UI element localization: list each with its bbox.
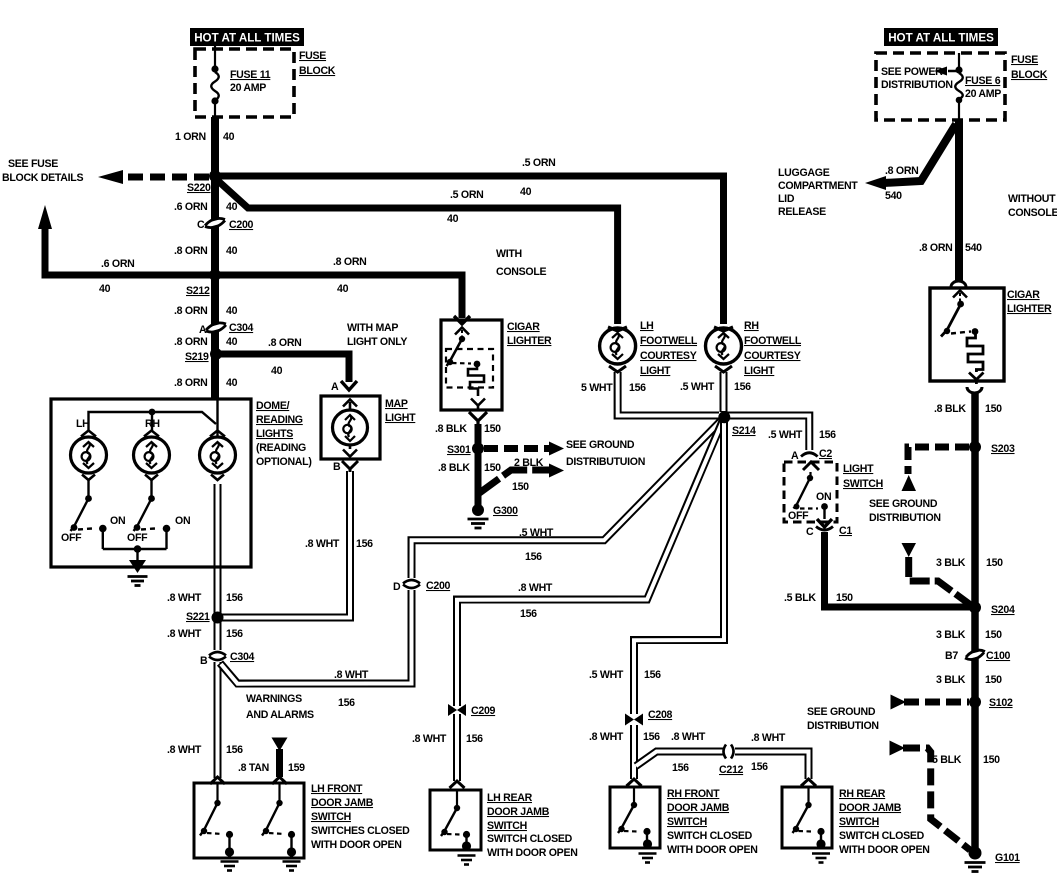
svg-text:ON: ON	[816, 491, 831, 503]
ground LH rear door jamb switch	[462, 841, 471, 850]
svg-text:C304: C304	[230, 651, 255, 663]
svg-text:150: 150	[985, 629, 1002, 641]
svg-text:156: 156	[644, 669, 661, 681]
svg-text:156: 156	[672, 762, 689, 774]
svg-text:CONSOLE: CONSOLE	[1008, 207, 1057, 219]
svg-text:20 AMP: 20 AMP	[230, 82, 266, 94]
wire .5 WHT 156 RH footwell light to S214	[720, 372, 728, 412]
svg-text:LIGHTS: LIGHTS	[256, 428, 293, 440]
svg-text:.8 ORN: .8 ORN	[919, 242, 953, 254]
connector C200 pin C	[204, 220, 226, 226]
RH rear door jamb switch	[793, 787, 822, 841]
svg-text:.8 WHT: .8 WHT	[751, 732, 786, 744]
wire .8 ORN fuse 6 to luggage release arrow	[884, 124, 956, 183]
svg-text:.8 BLK: .8 BLK	[435, 423, 467, 435]
wire .8 ORN 40 S219 to map light A	[216, 354, 349, 382]
cigar lighter with console box	[441, 320, 502, 410]
svg-text:40: 40	[99, 283, 111, 295]
wire 5 WHT 156 LH footwell light to S214	[618, 372, 719, 416]
svg-text:DOOR JAMB: DOOR JAMB	[667, 802, 730, 814]
terminal map light A	[341, 381, 357, 390]
wire .5 WHT 156 S214 to C208	[634, 418, 724, 715]
svg-text:40: 40	[223, 131, 235, 143]
connector C209	[448, 704, 466, 716]
arrow see ground distribution from S301	[549, 442, 564, 456]
svg-text:FUSE: FUSE	[299, 50, 326, 62]
wire .8 WHT 156 C304 B to warnings and alarms to C200 D	[220, 590, 412, 684]
terminal light switch C	[817, 519, 832, 527]
wire .8 WHT 156 C208 branch to C212	[636, 752, 723, 767]
svg-text:HOT AT ALL TIMES: HOT AT ALL TIMES	[888, 32, 994, 45]
svg-text:1 ORN: 1 ORN	[175, 131, 206, 143]
svg-text:BLOCK: BLOCK	[1011, 69, 1048, 81]
svg-text:WITHOUT: WITHOUT	[1008, 193, 1056, 205]
svg-text:MAP: MAP	[385, 398, 408, 410]
splice S221	[212, 612, 224, 624]
svg-text:40: 40	[226, 336, 238, 348]
svg-text:.5 WHT: .5 WHT	[519, 527, 554, 539]
svg-text:3 BLK: 3 BLK	[936, 629, 966, 641]
svg-text:.6 ORN: .6 ORN	[174, 201, 208, 213]
svg-text:.8 ORN: .8 ORN	[268, 337, 302, 349]
svg-text:LH: LH	[640, 320, 654, 332]
svg-text:.8 WHT: .8 WHT	[167, 744, 202, 756]
terminal light switch A	[803, 462, 819, 470]
svg-text:COURTESY: COURTESY	[744, 350, 801, 362]
wire .8 WHT 156 C304 B to LH front door jamb switch	[214, 662, 222, 778]
splice S204	[969, 602, 981, 614]
svg-text:C304: C304	[229, 322, 254, 334]
svg-text:.8 WHT: .8 WHT	[518, 582, 553, 594]
svg-text:LID: LID	[778, 193, 795, 205]
svg-text:OFF: OFF	[61, 532, 82, 544]
splice S203	[969, 441, 981, 453]
svg-text:3 BLK: 3 BLK	[936, 674, 966, 686]
svg-text:FUSE: FUSE	[1011, 54, 1038, 66]
dome reading lights box	[51, 399, 251, 567]
ground RH front door jamb switch	[643, 839, 652, 848]
connector C212	[724, 745, 734, 759]
connector C100 pin B7	[965, 653, 985, 658]
LH front door jamb switch box	[194, 783, 304, 858]
wire .5 WHT 156 C200 D to S214	[412, 418, 725, 579]
wire .8 ORN 540 fuse 6 to cigar lighter without console	[955, 120, 963, 284]
svg-text:SWITCH: SWITCH	[839, 816, 879, 828]
svg-text:WITH DOOR OPEN: WITH DOOR OPEN	[311, 839, 402, 851]
wire dashed S203 to see ground distribution up arrow	[908, 447, 969, 474]
terminal cigar lighter without console top	[951, 281, 966, 287]
ground G101	[969, 847, 982, 860]
ground G300	[472, 504, 484, 516]
svg-text:CIGAR: CIGAR	[1007, 289, 1040, 301]
svg-text:150: 150	[484, 462, 501, 474]
wire dashed see ground arrow to S102	[904, 699, 969, 706]
fuse F6 symbol	[948, 53, 963, 120]
svg-text:.5 WHT: .5 WHT	[768, 429, 803, 441]
svg-text:156: 156	[525, 551, 542, 563]
svg-text:S102: S102	[989, 697, 1013, 709]
svg-text:SEE POWER: SEE POWER	[881, 66, 943, 78]
svg-text:DOOR JAMB: DOOR JAMB	[487, 806, 550, 818]
svg-text:S221: S221	[186, 611, 210, 623]
svg-text:C: C	[806, 526, 814, 538]
splice S301	[472, 443, 484, 455]
svg-text:SWITCH: SWITCH	[667, 816, 707, 828]
svg-text:540: 540	[965, 242, 982, 254]
svg-text:156: 156	[520, 608, 537, 620]
terminal RH front door jamb switch	[627, 779, 642, 786]
splice S214	[718, 411, 730, 423]
wire 1 ORN 40 from fuse 11 to S220	[211, 117, 219, 176]
svg-text:.8 ORN: .8 ORN	[174, 245, 208, 257]
svg-text:C2: C2	[819, 448, 832, 460]
svg-text:2 BLK: 2 BLK	[514, 457, 544, 469]
svg-text:LH: LH	[76, 418, 90, 430]
svg-text:DOOR JAMB: DOOR JAMB	[839, 802, 902, 814]
wire .5 ORN 40 S220 to RH footwell light	[215, 176, 724, 324]
terminal RH footwell bottom	[715, 366, 732, 372]
svg-text:C100: C100	[986, 650, 1011, 662]
connector C304 pin A	[205, 325, 227, 331]
svg-text:5 WHT: 5 WHT	[581, 382, 613, 394]
svg-text:S220: S220	[187, 182, 211, 194]
ground RH rear door jamb switch	[816, 839, 825, 848]
splice S220	[209, 170, 221, 182]
wire 3 BLK 150 S203 to S204 to C100 to S102	[971, 447, 979, 702]
svg-text:C: C	[197, 219, 205, 231]
svg-text:40: 40	[271, 365, 283, 377]
bulb dome reading optional	[200, 431, 236, 481]
wire .8 ORN 40 S212 to cigar lighter with console	[215, 275, 462, 318]
svg-text:CIGAR: CIGAR	[507, 321, 540, 333]
terminal cigar lighter top	[454, 316, 470, 324]
svg-text:.8 WHT: .8 WHT	[412, 733, 447, 745]
svg-text:156: 156	[734, 381, 751, 393]
svg-text:WITH DOOR OPEN: WITH DOOR OPEN	[839, 844, 930, 856]
svg-text:DISTRIBUTION: DISTRIBUTION	[881, 79, 953, 91]
terminal RH rear door jamb switch	[801, 779, 816, 786]
wire .8 ORN S220 to C200 to S212	[211, 176, 219, 275]
svg-text:3 BLK: 3 BLK	[936, 557, 966, 569]
arrow see power distribution	[934, 67, 947, 76]
terminal LH front door jamb switch pin 2	[272, 777, 287, 784]
svg-text:C212: C212	[719, 764, 744, 776]
svg-text:OFF: OFF	[127, 532, 148, 544]
svg-text:540: 540	[885, 190, 902, 202]
svg-text:156: 156	[226, 744, 243, 756]
svg-text:G300: G300	[493, 505, 518, 517]
svg-text:.8 WHT: .8 WHT	[589, 731, 624, 743]
arrow down .8 TAN off-page	[272, 738, 288, 752]
svg-text:READING: READING	[256, 414, 303, 426]
svg-text:LIGHT: LIGHT	[640, 365, 671, 377]
svg-text:.8 WHT: .8 WHT	[167, 592, 202, 604]
wire .8 WHT 156 map light B to S221	[222, 471, 350, 618]
splice S102	[969, 696, 981, 708]
wire S102 to G101	[971, 702, 979, 851]
svg-text:C209: C209	[471, 705, 496, 717]
wire dashed S301 to see ground distribution arrow	[484, 445, 549, 452]
svg-text:S219: S219	[185, 351, 209, 363]
svg-text:156: 156	[466, 733, 483, 745]
svg-text:OFF: OFF	[788, 510, 809, 522]
svg-text:.5 ORN: .5 ORN	[450, 189, 484, 201]
RH front door jamb switch box	[610, 787, 660, 848]
svg-text:S301: S301	[447, 444, 471, 456]
svg-text:CONSOLE: CONSOLE	[496, 266, 547, 278]
switch LH dome	[71, 480, 103, 549]
wire .8 WHT 156 S214 to C209	[457, 418, 724, 707]
arrow see ground distribution 2 BLK	[549, 464, 564, 478]
svg-text:40: 40	[226, 201, 238, 213]
wire dashed to SEE FUSE BLOCK DETAILS arrow	[121, 174, 209, 181]
wire .8 ORN S212 through C304 A and S219 to dome lights	[211, 275, 219, 399]
svg-text:RH: RH	[145, 418, 160, 430]
ground LH front door jamb switch 2	[287, 847, 296, 856]
svg-text:WARNINGS: WARNINGS	[246, 693, 302, 705]
svg-text:156: 156	[226, 628, 243, 640]
svg-text:.8 ORN: .8 ORN	[174, 377, 208, 389]
LH front door jamb switch 1	[200, 784, 230, 849]
svg-text:BLOCK: BLOCK	[299, 65, 336, 77]
svg-text:.8 ORN: .8 ORN	[333, 256, 367, 268]
ground LH front door jamb switch 1	[225, 847, 234, 856]
terminal LH rear door jamb switch	[450, 781, 465, 788]
svg-text:LIGHT: LIGHT	[385, 412, 416, 424]
svg-text:LH REAR: LH REAR	[487, 792, 533, 804]
map light box	[321, 396, 380, 459]
terminal LH footwell	[608, 327, 627, 331]
svg-text:A: A	[331, 381, 339, 393]
RH front door jamb switch	[618, 787, 647, 841]
svg-text:20 AMP: 20 AMP	[965, 88, 1001, 100]
terminal cigar lighter bottom	[469, 412, 487, 425]
arrow see ground distribution to S102	[891, 695, 907, 710]
bulb LH dome	[71, 431, 107, 481]
svg-text:S204: S204	[991, 604, 1015, 616]
wire 5 BLK 150 see ground arrow to G101	[903, 748, 970, 850]
svg-text:WITH DOOR OPEN: WITH DOOR OPEN	[667, 844, 758, 856]
svg-text:A: A	[791, 450, 799, 462]
svg-text:OPTIONAL): OPTIONAL)	[256, 456, 312, 468]
wire .8 TAN 159 from off-page arrow to LH front door jamb switch	[276, 749, 283, 777]
light switch dashed box	[784, 462, 837, 522]
svg-text:LIGHTER: LIGHTER	[507, 335, 552, 347]
wire .8 WHT 156 C208 to RH front door jamb switch	[630, 725, 638, 779]
svg-text:B: B	[333, 461, 341, 473]
svg-text:.6 ORN: .6 ORN	[101, 258, 135, 270]
connector C304 pin B	[209, 652, 226, 660]
svg-text:LIGHT: LIGHT	[744, 365, 775, 377]
svg-text:.5 ORN: .5 ORN	[522, 157, 556, 169]
LH front door jamb switch 2	[262, 784, 292, 849]
svg-text:LH FRONT: LH FRONT	[311, 783, 363, 795]
svg-text:SWITCHES CLOSED: SWITCHES CLOSED	[311, 825, 410, 837]
hot at all times header left	[190, 28, 304, 46]
ground dome lights	[136, 549, 138, 560]
svg-text:S212: S212	[186, 285, 210, 297]
svg-text:C200: C200	[426, 580, 451, 592]
svg-text:WITH: WITH	[496, 248, 522, 260]
svg-text:DISTRIBUTUION: DISTRIBUTUION	[566, 456, 645, 468]
svg-text:FOOTWELL: FOOTWELL	[744, 335, 802, 347]
svg-text:DISTRIBUTION: DISTRIBUTION	[869, 512, 941, 524]
svg-text:RH: RH	[744, 320, 759, 332]
svg-text:C1: C1	[839, 525, 852, 537]
LH rear door jamb switch box	[430, 790, 481, 850]
arrow see ground distribution 5 BLK	[890, 741, 906, 756]
svg-text:159: 159	[288, 762, 305, 774]
svg-text:DISTRIBUTION: DISTRIBUTION	[807, 720, 879, 732]
dome switch common bus to ground	[103, 548, 167, 550]
svg-text:150: 150	[983, 754, 1000, 766]
wire 2 BLK 150 to see ground distribution arrow 2	[478, 470, 549, 494]
svg-text:40: 40	[226, 305, 238, 317]
svg-text:LIGHTER: LIGHTER	[1007, 303, 1052, 315]
svg-text:COMPARTMENT: COMPARTMENT	[778, 180, 858, 192]
terminal LH footwell bottom	[609, 366, 626, 372]
svg-text:DOME/: DOME/	[256, 400, 290, 412]
svg-text:.5 BLK: .5 BLK	[784, 592, 816, 604]
svg-text:LIGHT ONLY: LIGHT ONLY	[347, 336, 407, 348]
svg-text:C200: C200	[229, 219, 254, 231]
svg-text:SWITCH CLOSED: SWITCH CLOSED	[487, 833, 573, 845]
bulb LH footwell	[600, 328, 636, 364]
svg-text:AND ALARMS: AND ALARMS	[246, 709, 314, 721]
arrow luggage compartment lid release	[865, 176, 886, 190]
svg-text:.5 WHT: .5 WHT	[589, 669, 624, 681]
svg-text:SEE FUSE: SEE FUSE	[8, 158, 58, 170]
dome internal feed bus	[89, 399, 218, 437]
svg-text:SWITCH CLOSED: SWITCH CLOSED	[839, 830, 925, 842]
svg-text:LUGGAGE: LUGGAGE	[778, 167, 830, 179]
terminal LH front door jamb switch pin 1	[210, 777, 225, 784]
wire 3 BLK 150 down arrow to S204	[909, 557, 972, 606]
svg-text:A: A	[199, 324, 207, 336]
svg-text:156: 156	[643, 731, 660, 743]
switch RH dome	[134, 480, 167, 549]
svg-text:B7: B7	[945, 650, 958, 662]
svg-text:G101: G101	[995, 852, 1020, 864]
bulb map light	[333, 400, 368, 457]
svg-text:.8 ORN: .8 ORN	[885, 165, 919, 177]
connector C2 pin A	[801, 453, 818, 457]
connector C1 pin C	[816, 527, 833, 531]
svg-text:.8 WHT: .8 WHT	[671, 731, 706, 743]
svg-text:5 BLK: 5 BLK	[932, 754, 962, 766]
hot at all times header right	[884, 28, 998, 46]
svg-text:150: 150	[986, 557, 1003, 569]
RH rear door jamb switch box	[782, 787, 832, 848]
fuse block left dashed box	[195, 49, 294, 117]
wire .8 WHT 156 C212 to RH rear door jamb switch	[735, 752, 809, 780]
svg-text:.8 WHT: .8 WHT	[305, 538, 340, 550]
svg-text:SWITCH CLOSED: SWITCH CLOSED	[667, 830, 753, 842]
svg-text:150: 150	[836, 592, 853, 604]
svg-text:(READING: (READING	[256, 442, 306, 454]
arrow up from S212 branch	[38, 205, 52, 229]
svg-text:150: 150	[985, 403, 1002, 415]
svg-text:SEE GROUND: SEE GROUND	[807, 706, 876, 718]
svg-text:WITH MAP: WITH MAP	[347, 322, 398, 334]
svg-text:.5 WHT: .5 WHT	[680, 381, 715, 393]
svg-text:.8 ORN: .8 ORN	[174, 336, 208, 348]
bulb RH dome	[134, 431, 170, 481]
connector C208	[625, 714, 643, 726]
svg-text:156: 156	[629, 382, 646, 394]
svg-text:RH REAR: RH REAR	[839, 788, 886, 800]
connector C200 pin D	[403, 580, 420, 588]
svg-text:ON: ON	[110, 515, 125, 527]
arrow up see ground distribution right	[902, 475, 917, 491]
svg-text:SEE GROUND: SEE GROUND	[869, 498, 938, 510]
svg-text:COURTESY: COURTESY	[640, 350, 697, 362]
svg-text:B: B	[200, 655, 208, 667]
svg-text:156: 156	[226, 592, 243, 604]
fuse F11 symbol	[211, 46, 219, 117]
svg-text:.8 ORN: .8 ORN	[174, 305, 208, 317]
svg-text:LIGHT: LIGHT	[843, 463, 874, 475]
terminal RH footwell	[714, 327, 733, 331]
wire .8 BLK 150 cigar lighter to S203	[971, 388, 979, 447]
terminal map light B	[342, 461, 358, 472]
svg-text:FOOTWELL: FOOTWELL	[640, 335, 698, 347]
wire .8 WHT 156 dome lights to S221	[214, 484, 222, 617]
wire .8 BLK 150 S301 to G300	[475, 448, 482, 506]
splice S212	[209, 269, 221, 281]
light switch contacts	[794, 472, 825, 519]
terminal cigar lighter without console bottom	[967, 387, 982, 393]
wire .8 WHT 156 C209 to LH rear door jamb switch	[453, 714, 461, 781]
wire .6 ORN 40 S212 to up arrow	[45, 226, 215, 275]
svg-text:DOOR JAMB: DOOR JAMB	[311, 797, 374, 809]
wire .8 WHT 156 S221 to C304 B	[214, 618, 222, 650]
cigar lighter without console box	[930, 288, 1004, 381]
svg-text:156: 156	[338, 697, 355, 709]
wire .5 BLK 150 light switch C1 to S204	[825, 532, 972, 607]
svg-text:C208: C208	[648, 709, 673, 721]
splice S219	[210, 348, 222, 360]
svg-text:FUSE 6: FUSE 6	[965, 75, 1001, 87]
svg-text:WITH DOOR OPEN: WITH DOOR OPEN	[487, 847, 578, 859]
svg-text:S203: S203	[991, 443, 1015, 455]
svg-text:40: 40	[520, 186, 532, 198]
LH rear door jamb switch	[441, 790, 467, 843]
arrow down see ground distribution right	[902, 543, 917, 557]
svg-text:HOT AT ALL TIMES: HOT AT ALL TIMES	[194, 32, 300, 45]
svg-text:RH FRONT: RH FRONT	[667, 788, 720, 800]
svg-text:FUSE 11: FUSE 11	[230, 69, 271, 81]
svg-text:150: 150	[512, 481, 529, 493]
svg-text:40: 40	[226, 245, 238, 257]
svg-text:ON: ON	[175, 515, 190, 527]
wire .5 ORN 40 S220 to LH footwell light	[216, 179, 618, 324]
svg-text:150: 150	[484, 423, 501, 435]
svg-text:.8 BLK: .8 BLK	[438, 462, 470, 474]
arrow to SEE FUSE BLOCK DETAILS	[98, 170, 123, 184]
svg-text:156: 156	[356, 538, 373, 550]
svg-text:156: 156	[751, 761, 768, 773]
svg-text:.8 TAN: .8 TAN	[238, 762, 269, 774]
svg-text:SWITCH: SWITCH	[487, 820, 527, 832]
svg-text:RELEASE: RELEASE	[778, 206, 826, 218]
svg-text:SWITCH: SWITCH	[311, 811, 351, 823]
svg-text:SWITCH: SWITCH	[843, 478, 883, 490]
svg-text:.8 WHT: .8 WHT	[334, 669, 369, 681]
svg-text:150: 150	[985, 674, 1002, 686]
svg-text:SEE GROUND: SEE GROUND	[566, 439, 635, 451]
wire .8 BLK 150 cigar lighter to S301	[475, 424, 482, 444]
